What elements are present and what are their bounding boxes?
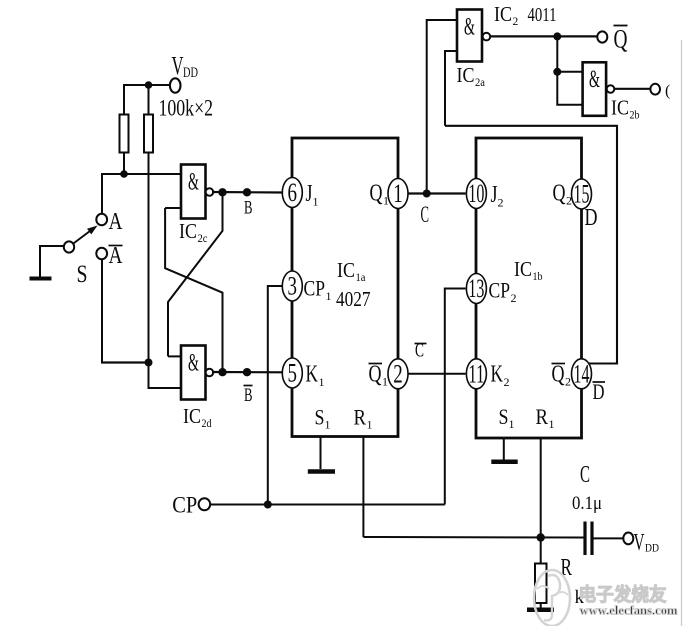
svg-text:Q: Q [614,25,628,54]
svg-text:R: R [536,404,549,429]
resistor R [535,564,547,604]
pin 3 CP1 [282,271,302,301]
svg-text:CP: CP [172,493,197,518]
svg-text:2: 2 [504,375,510,389]
svg-text:1: 1 [313,195,319,209]
watermark logo and text [534,570,678,626]
svg-text:&: & [464,14,475,41]
junction dot Q-bar tap [553,32,561,40]
node A-bar contact [96,248,107,260]
wire A rail to IC2c input [101,173,182,175]
wire A-bar contact down to rail [101,259,103,364]
switch S lever [64,241,74,252]
svg-text:100k×2: 100k×2 [159,96,214,121]
node A contact [96,214,107,226]
wire lever to ground [40,246,64,277]
svg-text:IC: IC [611,96,629,120]
wire to IC2d lower input [149,363,182,389]
svg-text:5: 5 [288,359,298,388]
svg-text:J: J [491,182,498,208]
svg-text:R: R [354,405,367,430]
svg-text:CP: CP [304,276,326,301]
wire Q-bar down to IC2b [556,36,558,72]
svg-text:C: C [580,462,590,488]
wire B-bar to IC2c input diagonal [165,208,222,372]
junction dot B-bar tap [218,368,226,376]
wire IC2b upper input [557,71,582,73]
svg-text:11: 11 [468,359,484,388]
svg-text:4011: 4011 [528,4,557,26]
node VDD bottom terminal [623,533,633,545]
node Q-bar terminal [597,31,607,42]
resistor R1 of pull-up pair [120,115,129,153]
pin 10 J2 [466,179,486,209]
op-amp gate IC2d [181,346,206,400]
svg-text:A: A [109,209,124,235]
svg-text:www.elecfans.com: www.elecfans.com [580,603,678,618]
svg-text:1a: 1a [356,272,366,284]
wire CP rail [210,504,445,506]
wire B to IC2d input diagonal [168,192,223,356]
flip-flop IC1b [476,138,582,438]
ground S1 of IC1a [320,436,322,469]
svg-text:B: B [244,385,253,406]
svg-text:2: 2 [498,196,504,210]
svg-text:&: & [188,350,199,377]
wire CP1 from pin 3 down to CP rail [268,286,283,505]
svg-text:R: R [561,555,573,581]
svg-text:IC: IC [179,219,197,243]
svg-text:S: S [315,405,325,430]
wire R to ground [540,603,542,608]
svg-text:1b: 1b [533,271,543,283]
pin 13 CP2 [466,274,486,304]
svg-text:CP: CP [489,278,511,303]
svg-text:V: V [172,52,184,81]
wire node C Q1 to J2 [408,192,466,194]
svg-text:10: 10 [468,179,484,208]
wire R2 bottom down to A-bar rail [148,153,150,363]
junction dot B tap [218,188,226,196]
svg-text:V: V [634,530,645,556]
svg-text:IC: IC [337,258,355,282]
svg-text:1: 1 [383,194,389,208]
wire R1 bottom to A rail [123,153,125,176]
wire IC2a lower input from feedback [445,51,457,126]
junction dot RC node [537,533,545,541]
svg-text:2: 2 [565,375,571,389]
wire IC2b output [614,88,650,90]
wire capacitor to VDD terminal [594,537,624,539]
svg-text:IC: IC [494,2,512,26]
svg-text:1: 1 [367,418,373,432]
op-amp gate IC2c [181,165,206,219]
svg-text:K: K [491,362,504,388]
svg-text:2b: 2b [630,110,640,122]
ground R [527,608,554,613]
capacitor C 0.1u [583,522,586,556]
svg-text:K: K [306,362,319,388]
border right edge [681,40,683,626]
pin 11 K2 [466,359,486,389]
svg-text:B: B [244,198,253,219]
svg-text:2: 2 [566,194,572,208]
junction dot IC2b input tap [553,68,561,76]
node VDD top terminal [124,84,170,86]
junction dot CP / CP1 [264,501,272,509]
pin 14 Q2-bar [572,359,592,389]
svg-text:S: S [77,261,88,288]
svg-text:1: 1 [393,179,403,208]
pin 15 Q2 [572,179,592,209]
op-amp gate IC2b [583,62,607,116]
wire A rail down to contact A [101,174,103,214]
svg-text:(: ( [665,83,670,100]
svg-text:1: 1 [325,418,331,432]
svg-text:Q: Q [552,362,565,388]
svg-text:A: A [109,243,124,269]
pin 1 Q1 [388,179,408,209]
svg-text:IC: IC [457,63,475,87]
wire R1 of IC1a down [362,436,364,537]
svg-text:4027: 4027 [336,287,371,311]
wire C node up to IC2a input [427,20,457,194]
junction dot VDD rail / R2 [145,81,153,89]
flip-flop IC1a [292,138,398,437]
svg-text:Q: Q [370,181,383,207]
svg-text:1: 1 [326,289,332,303]
svg-text:2: 2 [513,16,519,28]
junction dot A-bar rail / R2 [145,359,153,367]
svg-text:2: 2 [393,359,403,388]
svg-text:13: 13 [468,274,484,303]
wire VDD rail to R1 top [123,84,125,115]
svg-text:1: 1 [549,417,555,431]
svg-text:IC: IC [183,404,201,428]
svg-text:1: 1 [382,375,388,389]
wire feedback rail from Q2-bar [445,126,617,364]
svg-text:14: 14 [574,359,590,388]
wire node Q-bar out [490,35,597,37]
svg-text:D: D [585,205,598,231]
wire CP2 from pin 13 down to CP rail [445,289,466,505]
svg-text:&: & [188,169,199,196]
node Q terminal [650,84,660,95]
svg-text:IC: IC [514,257,532,281]
svg-text:Q: Q [553,181,566,207]
svg-text:3: 3 [288,272,298,301]
ground S1 of IC1b [503,438,505,460]
svg-text:DD: DD [183,65,198,81]
resistor R2 of pull-up pair [144,115,153,153]
svg-text:Q: Q [369,362,382,388]
wire A-bar rail [101,361,149,363]
svg-text:1: 1 [509,417,515,431]
svg-text:6: 6 [288,178,298,207]
wire node B [212,191,283,194]
junction dot B second [243,188,251,196]
wire node B-bar [212,371,283,373]
svg-text:DD: DD [645,541,659,555]
wire node to resistor R [540,538,542,564]
wire IC2c lower input [165,207,181,209]
wire VDD rail to R2 top [148,85,150,115]
ground switch [30,277,52,281]
wire IC2d upper input [168,355,182,357]
wire node C-bar Q1-bar to K2 [408,373,466,375]
svg-text:&: & [589,66,600,93]
junction dot R1 / A rail [120,170,128,178]
svg-text:1: 1 [319,375,325,389]
svg-text:2: 2 [511,291,517,305]
wire bottom rail to capacitor [363,536,583,539]
op-amp gate IC2a [457,10,482,62]
svg-text:0.1μ: 0.1μ [572,493,602,514]
svg-text:2a: 2a [475,77,485,89]
svg-text:2d: 2d [202,418,212,430]
pin 2 Q1-bar [388,359,408,389]
junction dot C node [423,190,431,198]
svg-text:S: S [499,404,509,429]
wire R1 of IC1b down [540,438,542,538]
svg-text:2c: 2c [198,233,208,245]
pin 6 J1 [282,178,302,208]
junction dot B-bar second [243,368,251,376]
svg-text:J: J [306,181,313,207]
svg-text:C: C [421,202,430,227]
wire IC2b lower input L [557,72,582,105]
pin 5 K1 [282,358,302,388]
